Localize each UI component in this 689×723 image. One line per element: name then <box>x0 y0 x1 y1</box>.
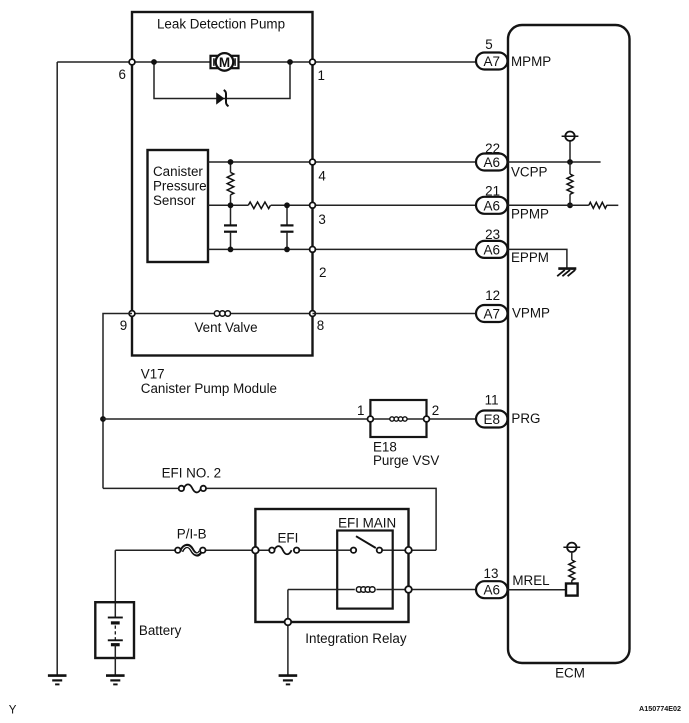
svg-text:A7: A7 <box>483 307 500 322</box>
wire pin9 to left branch <box>103 314 132 489</box>
ground G1 left <box>48 676 67 685</box>
connector A6 pin13 MREL <box>476 566 550 598</box>
wire EFI NO.2 line <box>103 466 436 551</box>
svg-text:P/I-B: P/I-B <box>177 527 207 542</box>
wire relay coil ground branch <box>287 590 289 676</box>
V17 Canister Pump Module box <box>132 12 313 396</box>
svg-text:2: 2 <box>432 403 439 418</box>
svg-text:MREL: MREL <box>512 573 549 588</box>
svg-text:9: 9 <box>120 318 127 333</box>
svg-text:EFI: EFI <box>278 531 299 546</box>
wire relay coil line <box>288 589 477 591</box>
Canister Pressure Sensor box <box>148 150 209 262</box>
Battery <box>95 550 181 675</box>
inductor L2 purge VSV coil <box>390 417 407 421</box>
connector A6 pin21 PPMP <box>476 183 549 221</box>
connector A6 pin23 EPPM <box>476 227 549 265</box>
pin 1 <box>310 59 325 83</box>
wire diode branch <box>154 62 290 99</box>
wire pin3 to PPMP <box>313 204 478 206</box>
node VCPP junction <box>567 159 573 165</box>
power source symbol B+1 <box>562 132 579 141</box>
svg-text:A6: A6 <box>483 198 500 213</box>
ECM internal VCPP pullup: wire <box>569 141 571 162</box>
resistor R1 vertical <box>227 162 234 205</box>
svg-text:8: 8 <box>317 318 324 333</box>
relay edge terminal left <box>252 547 259 554</box>
svg-text:12: 12 <box>485 288 500 303</box>
pin 3 <box>310 202 326 227</box>
switch blade <box>356 536 376 548</box>
relay edge terminal top <box>405 547 412 554</box>
svg-text:EFI NO. 2: EFI NO. 2 <box>162 466 222 481</box>
svg-text:Y: Y <box>9 705 17 717</box>
resistor R4 horizontal ECM <box>589 202 607 208</box>
svg-text:Canister Pump Module: Canister Pump Module <box>141 381 277 396</box>
node motor right junction <box>287 59 293 65</box>
VSV pin 1 <box>357 403 373 422</box>
svg-text:5: 5 <box>485 37 492 52</box>
pin 2 <box>310 247 327 281</box>
svg-text:Canister: Canister <box>153 164 203 179</box>
wire PPMP internal <box>508 204 618 206</box>
svg-text:6: 6 <box>119 67 126 82</box>
wire pin1 to MPMP <box>313 61 478 63</box>
wire sensor to pin3 <box>208 204 313 206</box>
inductor L3 relay coil <box>356 587 375 593</box>
connector A7 pin5 MPMP <box>476 37 551 70</box>
svg-text:PRG: PRG <box>511 411 540 426</box>
wire pin2 to EPPM <box>313 248 478 250</box>
capacitor C1 <box>224 205 237 249</box>
svg-text:1: 1 <box>357 403 364 418</box>
pin 8 <box>310 311 325 333</box>
connector A7 pin12 VPMP <box>476 288 550 322</box>
svg-text:Battery: Battery <box>139 623 182 638</box>
node PPMP junction <box>567 202 573 208</box>
fuse F2 EFI <box>269 531 299 555</box>
svg-text:VPMP: VPMP <box>512 306 550 321</box>
svg-text:Purge VSV: Purge VSV <box>373 453 439 468</box>
wire pin8 to VPMP <box>313 313 478 315</box>
svg-text:A6: A6 <box>483 242 500 257</box>
wire left ground bus vertical <box>56 62 58 675</box>
motor M pump <box>211 53 239 71</box>
svg-text:V17: V17 <box>141 367 165 382</box>
svg-text:Pressure: Pressure <box>153 179 207 194</box>
vent valve wire <box>132 314 313 336</box>
ECM internal MREL: power source symbol B+2 <box>563 543 580 552</box>
ECM box <box>508 25 630 681</box>
svg-text:EPPM: EPPM <box>511 250 549 265</box>
svg-text:ECM: ECM <box>555 666 585 681</box>
svg-text:A7: A7 <box>483 54 500 69</box>
wire MREL internal <box>508 589 567 591</box>
driver block square <box>566 584 578 596</box>
svg-text:21: 21 <box>485 183 500 198</box>
pin 6 <box>119 59 135 82</box>
Integration Relay box <box>255 509 408 646</box>
connector A6 pin22 VCPP <box>476 141 548 180</box>
svg-text:4: 4 <box>318 169 326 184</box>
fusible link P/I-B <box>175 527 207 555</box>
E18 Purge VSV box <box>370 400 439 468</box>
wire EPPM internal <box>508 249 567 268</box>
inductor L1 vent valve coil <box>214 311 230 316</box>
svg-text:13: 13 <box>484 566 499 581</box>
switch contact left <box>351 548 356 553</box>
capacitor C2 <box>281 205 294 249</box>
wire pin4 to VCPP <box>313 161 478 163</box>
svg-text:Vent Valve: Vent Valve <box>194 320 257 335</box>
pin 4 <box>310 159 327 183</box>
wire sensor to pin2 <box>208 248 313 250</box>
resistor R2 horizontal <box>248 202 270 209</box>
svg-text:Sensor: Sensor <box>153 193 196 208</box>
svg-text:Leak Detection Pump: Leak Detection Pump <box>157 17 285 32</box>
svg-text:PPMP: PPMP <box>511 207 549 222</box>
node motor left junction <box>151 59 157 65</box>
VSV pin 2 <box>424 403 440 422</box>
svg-text:EFI MAIN: EFI MAIN <box>338 516 396 531</box>
svg-text:Integration Relay: Integration Relay <box>305 631 407 646</box>
svg-text:11: 11 <box>485 392 499 407</box>
wire inside EFI MAIN <box>337 549 393 551</box>
svg-text:VCPP: VCPP <box>511 165 548 180</box>
pin 9 <box>120 311 135 333</box>
label A150774E02 <box>639 704 681 713</box>
wire PRG line <box>103 418 477 420</box>
wire pin6 left to left bus <box>57 61 132 63</box>
ground G2 battery <box>106 676 125 685</box>
ground G3 relay <box>279 676 298 685</box>
svg-text:1: 1 <box>318 68 325 83</box>
resistor R5 MREL vertical <box>569 552 575 584</box>
node sensor junctions <box>228 159 290 252</box>
relay edge terminal coil <box>405 586 412 593</box>
wire VCPP internal <box>508 161 601 163</box>
resistor R3 vertical ECM <box>567 162 573 205</box>
wire VSV internal <box>370 418 426 420</box>
svg-text:M: M <box>219 55 230 70</box>
svg-text:MPMP: MPMP <box>511 54 551 69</box>
svg-text:A6: A6 <box>483 155 500 170</box>
svg-text:A6: A6 <box>483 583 500 598</box>
ground G4 EPPM chassis <box>557 269 576 277</box>
svg-text:E8: E8 <box>483 412 500 427</box>
switch contact right <box>377 548 382 553</box>
wire motor line inside module <box>132 61 313 63</box>
svg-text:A150774E02: A150774E02 <box>639 704 681 713</box>
svg-text:2: 2 <box>319 265 326 280</box>
svg-text:23: 23 <box>485 227 500 242</box>
svg-text:22: 22 <box>485 141 500 156</box>
diode D1 <box>216 90 228 106</box>
fuse F1 EFI NO.2 <box>179 484 206 492</box>
relay edge terminal bottom <box>285 619 292 626</box>
svg-text:3: 3 <box>318 212 325 227</box>
wire sensor to pin4 <box>208 161 313 163</box>
label Y <box>9 705 17 717</box>
wire main B+ line <box>115 549 436 551</box>
EFI MAIN relay box <box>337 516 396 609</box>
connector E8 pin11 PRG <box>476 392 540 427</box>
node PRG junction <box>100 416 106 422</box>
